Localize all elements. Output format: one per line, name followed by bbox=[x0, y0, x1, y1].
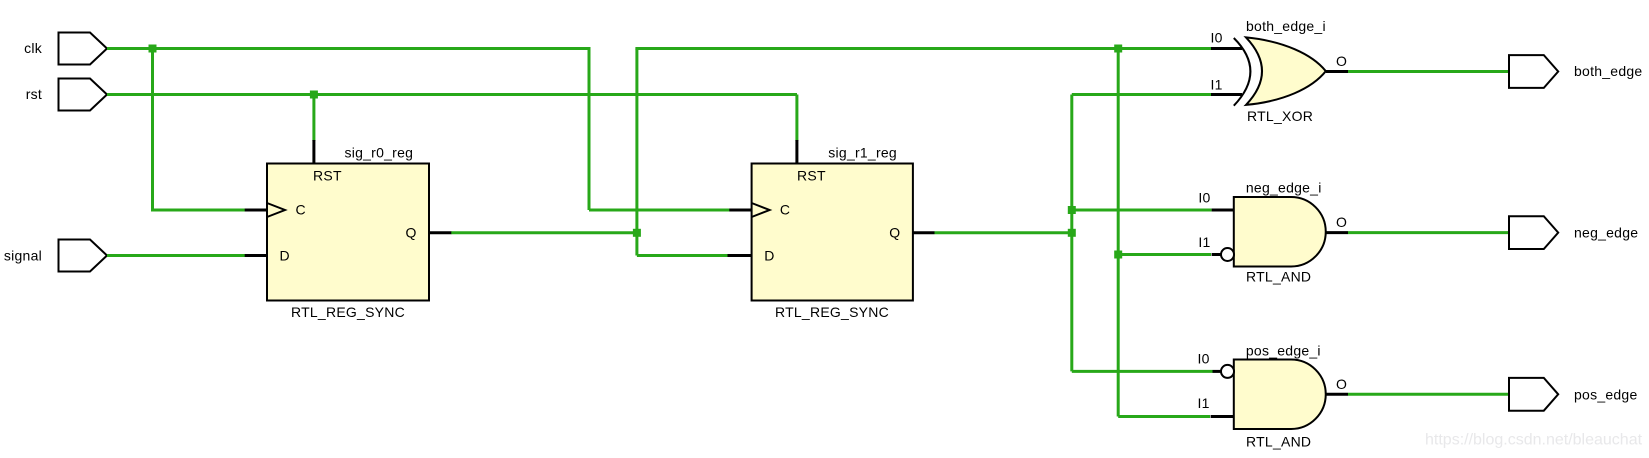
wire sig_r0 Q top horizontal bbox=[635, 47, 1211, 50]
svg-text:RTL_AND: RTL_AND bbox=[1246, 268, 1311, 284]
svg-text:O: O bbox=[1336, 376, 1347, 392]
wire sig_r0 Q to pos I1 bbox=[1118, 415, 1210, 418]
svg-text:I0: I0 bbox=[1198, 351, 1210, 367]
wire clk horizontal to sig_r1 C bbox=[589, 209, 730, 212]
svg-text:RST: RST bbox=[797, 168, 826, 184]
wire neg_edge output bbox=[1348, 231, 1510, 234]
svg-text:RTL_AND: RTL_AND bbox=[1246, 434, 1311, 450]
svg-text:Q: Q bbox=[889, 225, 900, 241]
and gate pos_edge_i RTL_AND bbox=[1198, 343, 1348, 450]
svg-text:D: D bbox=[764, 247, 774, 263]
wire pos_edge output bbox=[1348, 393, 1510, 396]
svg-text:C: C bbox=[296, 202, 306, 218]
wire sig_r0 Q horizontal bbox=[451, 231, 637, 234]
svg-text:RST: RST bbox=[313, 168, 342, 184]
wire clk horizontal to sig_r0 C bbox=[151, 209, 245, 212]
wire sig_r1 Q horizontal bbox=[935, 231, 1072, 234]
wire clk horizontal bbox=[107, 47, 589, 50]
svg-text:I0: I0 bbox=[1211, 30, 1223, 46]
register sig_r1_reg RTL_REG_SYNC bbox=[728, 140, 935, 320]
junction sig_r0 Q top right bbox=[1114, 45, 1122, 53]
wire clk vertical to sig_r1 C bbox=[588, 47, 591, 210]
wire rst vertical to sig_r1 RST bbox=[795, 95, 798, 142]
svg-text:I1: I1 bbox=[1198, 395, 1210, 411]
svg-text:I0: I0 bbox=[1198, 190, 1210, 206]
svg-text:sig_r1_reg: sig_r1_reg bbox=[828, 145, 897, 161]
svg-text:I1: I1 bbox=[1198, 234, 1210, 250]
svg-text:both_edge_i: both_edge_i bbox=[1246, 18, 1326, 34]
svg-text:D: D bbox=[280, 247, 290, 263]
wire sig_r0 Q right vertical bbox=[1117, 49, 1120, 417]
wire sig_r0 Q vertical bbox=[635, 49, 638, 256]
svg-text:C: C bbox=[780, 202, 790, 218]
svg-text:rst: rst bbox=[26, 86, 42, 102]
junction sig_r1 Q bbox=[1068, 229, 1076, 237]
svg-text:pos_edge: pos_edge bbox=[1574, 386, 1638, 402]
wire sig_r1 Q to pos I0 bbox=[1072, 370, 1213, 373]
output port both_edge bbox=[1509, 55, 1642, 88]
wire sig_r1 Q to XOR I1 bbox=[1072, 93, 1211, 96]
svg-text:RTL_REG_SYNC: RTL_REG_SYNC bbox=[775, 304, 889, 320]
svg-text:neg_edge_i: neg_edge_i bbox=[1246, 180, 1322, 196]
junction clk bbox=[149, 45, 157, 53]
register sig_r0_reg RTL_REG_SYNC bbox=[245, 140, 452, 320]
output port neg_edge bbox=[1509, 216, 1638, 249]
wire signal to sig_r0 D bbox=[107, 254, 245, 257]
svg-text:RTL_XOR: RTL_XOR bbox=[1247, 108, 1313, 124]
svg-text:https://blog.csdn.net/bleaucha: https://blog.csdn.net/bleauchat bbox=[1425, 432, 1643, 449]
svg-text:both_edge: both_edge bbox=[1574, 63, 1642, 79]
wire sig_r0 Q to neg I1 bbox=[1118, 253, 1211, 256]
input port clk bbox=[24, 33, 107, 65]
svg-text:signal: signal bbox=[4, 247, 42, 263]
svg-text:clk: clk bbox=[24, 40, 43, 56]
wire clk vertical to sig_r0 C bbox=[151, 49, 154, 211]
junction sig_r0 Q neg I1 bbox=[1114, 251, 1122, 259]
and gate neg_edge_i RTL_AND bbox=[1198, 180, 1348, 285]
xor gate both_edge_i RTL_XOR bbox=[1211, 18, 1348, 124]
wire rst horizontal bbox=[107, 93, 797, 96]
junction rst bbox=[310, 91, 318, 99]
output port pos_edge bbox=[1509, 378, 1638, 411]
wire sig_r1 Q to neg I0 bbox=[1072, 209, 1212, 212]
svg-text:pos_edge_i: pos_edge_i bbox=[1246, 343, 1321, 359]
svg-text:sig_r0_reg: sig_r0_reg bbox=[345, 145, 414, 161]
junction sig_r1 Q neg I0 bbox=[1068, 206, 1076, 214]
wire both_edge output bbox=[1348, 70, 1510, 73]
svg-text:Q: Q bbox=[406, 225, 417, 241]
svg-text:O: O bbox=[1336, 214, 1347, 230]
svg-text:I1: I1 bbox=[1211, 77, 1223, 93]
svg-text:neg_edge: neg_edge bbox=[1574, 225, 1638, 241]
wire rst vertical to sig_r0 RST bbox=[312, 95, 315, 142]
svg-text:O: O bbox=[1336, 53, 1347, 69]
junction sig_r0 Q bbox=[633, 229, 641, 237]
svg-text:RTL_REG_SYNC: RTL_REG_SYNC bbox=[291, 304, 405, 320]
wire sig_r0 Q to sig_r1 D bbox=[637, 254, 728, 257]
wire sig_r1 Q vertical bbox=[1070, 95, 1073, 372]
input port rst bbox=[26, 79, 107, 111]
input port signal bbox=[4, 240, 107, 272]
